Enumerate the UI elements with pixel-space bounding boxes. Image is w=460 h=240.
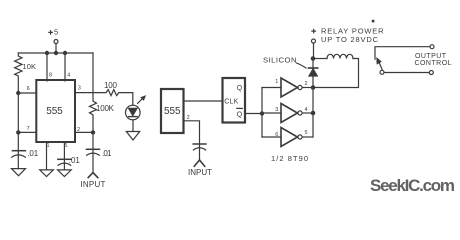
svg-text:6: 6 <box>27 86 30 92</box>
svg-text:555: 555 <box>164 106 181 117</box>
svg-text:8: 8 <box>49 73 52 79</box>
svg-text:6: 6 <box>275 132 278 138</box>
svg-text:INPUT: INPUT <box>188 168 212 177</box>
svg-text:INPUT: INPUT <box>80 180 105 189</box>
svg-text:1: 1 <box>275 79 278 85</box>
svg-text:4: 4 <box>67 73 70 79</box>
svg-text:555: 555 <box>46 106 63 117</box>
svg-text:7: 7 <box>27 126 30 132</box>
svg-text:CONTROL: CONTROL <box>415 60 452 67</box>
svg-text:.01: .01 <box>27 149 39 158</box>
svg-text:5: 5 <box>304 130 307 136</box>
svg-text:4: 4 <box>304 107 307 113</box>
svg-text:10K: 10K <box>23 62 37 71</box>
svg-text:OUTPUT: OUTPUT <box>415 53 447 60</box>
svg-text:100K: 100K <box>96 104 115 113</box>
svg-text:CLK: CLK <box>224 99 238 106</box>
svg-text:.01: .01 <box>69 156 81 165</box>
svg-text:.01: .01 <box>102 149 112 158</box>
svg-text:Q: Q <box>237 85 243 92</box>
svg-text:100: 100 <box>104 81 118 90</box>
svg-text:1: 1 <box>46 143 49 149</box>
svg-text:Q: Q <box>237 111 243 118</box>
svg-text:2: 2 <box>77 127 80 133</box>
svg-text:1/2 8T90: 1/2 8T90 <box>271 154 308 163</box>
svg-text:5: 5 <box>64 143 67 149</box>
svg-text:2: 2 <box>304 81 307 87</box>
svg-text:3: 3 <box>78 86 81 92</box>
svg-text:3: 3 <box>275 107 278 113</box>
svg-text:5: 5 <box>54 28 58 37</box>
svg-text:UP TO 28VDC: UP TO 28VDC <box>321 35 379 44</box>
svg-text:SILICON: SILICON <box>263 55 297 64</box>
svg-text:SeekIC.com: SeekIC.com <box>370 176 455 195</box>
svg-text:RELAY POWER: RELAY POWER <box>321 26 384 35</box>
svg-text:2: 2 <box>187 115 190 121</box>
